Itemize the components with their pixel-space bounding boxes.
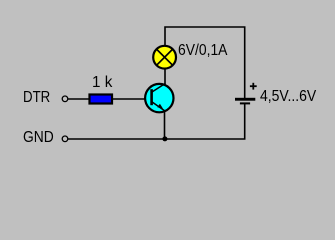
wire: DTR terminal to resistor R1 [68,98,89,100]
junction dot: emitter to GND rail [162,136,167,141]
wire: lamp top lead, top rail, battery upper lead [165,27,245,99]
label 4,5V...6V [260,89,316,104]
base bar [150,89,153,105]
node: GND terminal (open circle) [62,136,68,142]
emitter lead with arrow [152,102,165,111]
label 1 k [92,75,112,90]
collector lead [152,83,166,92]
wire: lamp to transistor collector [164,68,166,85]
label DTR [23,90,50,105]
wire: GND rail and battery lower lead [68,104,245,139]
node: DTR terminal (open circle) [62,96,68,102]
transistor Q1 (NPN) [145,83,173,112]
wire: resistor R1 to transistor base [113,98,152,100]
battery B1: short negative plate [240,102,250,104]
resistor R1 (1 k) body [90,95,113,104]
lamp LA1 (6V/0,1A) [153,46,176,69]
battery plus sign [250,83,257,90]
label 6V/0,1A [178,43,227,58]
wire: transistor emitter to GND rail [164,110,166,139]
battery B1: long positive plate [235,98,255,101]
label GND [23,130,54,145]
